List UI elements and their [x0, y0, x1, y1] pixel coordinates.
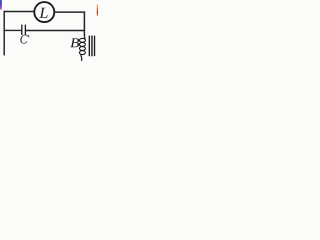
orange ink mark right edge (scan artifact): [97, 4, 98, 16]
wire: right vertical: [83, 12, 85, 37]
coil B loop 4: [79, 51, 85, 55]
coil B loop 2: [79, 42, 85, 46]
coil B loop 3: [79, 47, 85, 51]
label L: [39, 8, 47, 18]
wire: capacitor branch right: [26, 30, 85, 32]
iron core bar 1: [89, 36, 90, 57]
wire: capacitor branch left: [4, 29, 21, 31]
capacitor C right plate: [25, 25, 26, 35]
iron core bar 2: [91, 36, 92, 57]
capacitor C left plate: [21, 25, 22, 35]
label B: [70, 38, 79, 47]
coil B lead-in curve: [83, 36, 86, 40]
coil B bottom lead: [80, 54, 83, 61]
lamp/galvanometer U1 circle: [34, 2, 54, 22]
wire: top right horizontal from lamp: [55, 11, 85, 13]
iron core bar 3: [94, 36, 95, 56]
ink speck near capacitor right plate bottom: [28, 35, 30, 37]
blue ink mark left edge (scan artifact): [0, 0, 2, 10]
coil B loop 1: [79, 38, 85, 42]
wire: top left horizontal to lamp: [4, 11, 34, 13]
label C: [20, 35, 27, 44]
wire: left vertical: [3, 11, 5, 56]
